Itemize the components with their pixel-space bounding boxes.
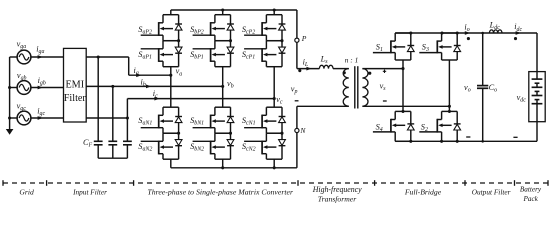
svg-text:SbN1: SbN1 bbox=[190, 116, 204, 127]
svg-text:Input Filter: Input Filter bbox=[72, 188, 107, 197]
svg-text:SbP1: SbP1 bbox=[190, 50, 204, 61]
svg-text:Three-phase to Single-phase Ma: Three-phase to Single-phase Matrix Conve… bbox=[147, 188, 294, 197]
svg-text:S1: S1 bbox=[376, 43, 383, 54]
svg-text:Battery: Battery bbox=[520, 186, 542, 194]
svg-text:Ls: Ls bbox=[320, 54, 329, 65]
svg-text:SbP2: SbP2 bbox=[190, 25, 204, 36]
svg-text:SaN2: SaN2 bbox=[138, 142, 152, 153]
svg-text:idc: idc bbox=[514, 22, 522, 33]
svg-text:ScP2: ScP2 bbox=[242, 25, 255, 36]
svg-text:SaP1: SaP1 bbox=[138, 50, 152, 61]
svg-text:SaN1: SaN1 bbox=[138, 116, 152, 127]
svg-text:SbN2: SbN2 bbox=[190, 142, 204, 153]
svg-text:vgc: vgc bbox=[17, 102, 27, 113]
svg-text:ScN2: ScN2 bbox=[242, 142, 256, 153]
svg-text:ib: ib bbox=[141, 77, 146, 88]
svg-text:vo: vo bbox=[464, 83, 471, 94]
svg-text:vs: vs bbox=[380, 81, 387, 92]
svg-text:iga: iga bbox=[36, 45, 44, 56]
svg-text:vc: vc bbox=[276, 95, 283, 106]
svg-text:CF: CF bbox=[83, 138, 93, 149]
svg-text:High-frequency: High-frequency bbox=[312, 185, 362, 194]
svg-text:n : 1: n : 1 bbox=[345, 56, 359, 65]
svg-text:Filter: Filter bbox=[64, 93, 87, 104]
svg-text:va: va bbox=[176, 67, 183, 78]
svg-text:vdc: vdc bbox=[517, 93, 527, 104]
svg-text:vp: vp bbox=[291, 84, 298, 95]
svg-text:S3: S3 bbox=[422, 43, 429, 54]
svg-text:Pack: Pack bbox=[523, 195, 539, 203]
svg-text:Transformer: Transformer bbox=[318, 194, 357, 203]
svg-text:N: N bbox=[299, 126, 306, 135]
svg-text:EMI: EMI bbox=[65, 80, 84, 91]
svg-text:SaP2: SaP2 bbox=[138, 25, 152, 36]
svg-text:ScP1: ScP1 bbox=[242, 50, 255, 61]
svg-text:vga: vga bbox=[17, 39, 27, 50]
svg-text:vgb: vgb bbox=[17, 71, 27, 82]
svg-text:vb: vb bbox=[227, 79, 234, 90]
svg-text:P: P bbox=[301, 34, 307, 43]
svg-text:Full-Bridge: Full-Bridge bbox=[404, 187, 442, 196]
svg-text:Grid: Grid bbox=[19, 188, 34, 197]
svg-text:iL: iL bbox=[303, 58, 309, 69]
svg-text:igc: igc bbox=[37, 107, 45, 118]
svg-text:Output Filter: Output Filter bbox=[472, 188, 511, 197]
svg-text:ScN1: ScN1 bbox=[242, 116, 256, 127]
svg-text:igb: igb bbox=[38, 76, 46, 87]
svg-text:Co: Co bbox=[489, 83, 498, 94]
